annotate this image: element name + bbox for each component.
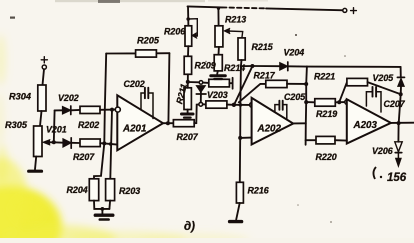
node dot D (V204 row) bbox=[250, 64, 254, 68]
wire feedback vertical left (R205 loop) bbox=[104, 54, 106, 144]
wire R215 down main vertical bbox=[240, 60, 242, 182]
op-amp A201 bbox=[117, 95, 163, 150]
wire stub to dot D bbox=[241, 65, 253, 67]
speckles bbox=[295, 34, 297, 36]
wire top to R213 bbox=[217, 8, 219, 26]
svg-text:д): д) bbox=[184, 221, 195, 233]
svg-text:R205: R205 bbox=[137, 36, 160, 46]
wire D to V204 bbox=[252, 65, 279, 67]
diode V205 bbox=[397, 77, 404, 86]
node dot R207/feedback bbox=[102, 141, 106, 145]
wire to ground bbox=[101, 209, 103, 214]
terminal + (left input) bbox=[41, 57, 47, 69]
wire V205 to node bbox=[400, 86, 402, 94]
svg-text:R202: R202 bbox=[78, 120, 99, 130]
node junction V201/V202 bbox=[52, 140, 56, 144]
resistor R216 bbox=[236, 182, 243, 203]
resistor R217 bbox=[266, 80, 287, 87]
wire R206 to R209 bbox=[187, 46, 189, 56]
wire A201 output bbox=[163, 122, 173, 124]
wire R219 to node bbox=[335, 101, 345, 103]
diode V206 bbox=[395, 142, 402, 153]
wire R304 to R305 bbox=[40, 111, 42, 126]
op-amp A203 bbox=[347, 99, 391, 143]
wire R220 row bbox=[306, 139, 316, 141]
diode V202 bbox=[63, 106, 71, 115]
resistor R209 bbox=[184, 56, 191, 74]
wire R217 to V2 line bbox=[287, 83, 306, 85]
wire A202 output bbox=[293, 122, 306, 124]
wire node B to R212 bbox=[203, 103, 206, 105]
wire corner down to V205 bbox=[400, 67, 402, 78]
resistor R214 bbox=[214, 55, 222, 71]
node dot ground join bbox=[101, 207, 105, 211]
junction circle node B bbox=[199, 102, 203, 106]
potentiometer R305 bbox=[34, 126, 42, 157]
wire V203 cathode to node B bbox=[200, 94, 202, 102]
svg-text:R206: R206 bbox=[164, 27, 185, 37]
node dot V1 row crossing bbox=[239, 103, 243, 107]
node dot R211 top bbox=[186, 80, 190, 84]
svg-text:V202: V202 bbox=[58, 93, 79, 103]
wire V201 to R207 bbox=[71, 142, 80, 144]
junction circle V203 anode bbox=[199, 81, 203, 85]
wire node down to output bbox=[399, 94, 401, 123]
wire node to V203 row bbox=[188, 81, 199, 83]
wire junction up to V202 row bbox=[53, 110, 56, 142]
diode V203 bbox=[196, 86, 206, 94]
svg-text:R207: R207 bbox=[73, 152, 95, 162]
svg-text:156: 156 bbox=[387, 172, 407, 184]
resistor R211 bbox=[184, 88, 191, 110]
node dot V205/R221 bbox=[399, 92, 403, 96]
svg-text:R209: R209 bbox=[195, 61, 216, 71]
wire node to A201 lower input bbox=[104, 143, 117, 144]
ground (below R214) bbox=[211, 76, 226, 79]
wire output down to V206 bbox=[397, 123, 399, 142]
scan smudge top edge bbox=[10, 0, 268, 19]
capacitor C205 bbox=[275, 101, 287, 120]
ground (below R216) bbox=[230, 220, 242, 223]
diode V201 bbox=[63, 138, 71, 148]
node dot R219/R221 bbox=[337, 100, 341, 104]
input circle A202 bbox=[250, 103, 255, 108]
svg-text:R220: R220 bbox=[316, 152, 337, 162]
capacitor C207 bbox=[366, 87, 381, 112]
svg-text:R217: R217 bbox=[254, 71, 276, 81]
resistor R221 bbox=[347, 78, 368, 85]
wire R213 to R214 bbox=[218, 47, 220, 55]
resistor R202 bbox=[80, 106, 100, 113]
svg-text:R204: R204 bbox=[67, 185, 88, 195]
svg-text:R203: R203 bbox=[119, 186, 140, 196]
wire V204 to corner bbox=[288, 65, 307, 67]
resistor R210 (with end bar) bbox=[209, 78, 233, 89]
resistor R207 (left) bbox=[80, 139, 100, 147]
wiper arrow into R305 bbox=[43, 140, 54, 145]
ground (below R305) bbox=[29, 170, 42, 173]
resistor R207 (output) bbox=[173, 120, 194, 127]
top supply wire bbox=[188, 6, 223, 7]
terminal circle + (top right) bbox=[343, 8, 347, 12]
ground (below R211) bbox=[182, 114, 194, 118]
svg-text:V203: V203 bbox=[207, 90, 228, 100]
wire circle to R210 bbox=[203, 82, 209, 84]
svg-text:R219: R219 bbox=[316, 109, 337, 119]
node dot A202 lower input bbox=[238, 136, 242, 140]
node dot output V206 bbox=[397, 121, 401, 125]
ground (below R203/R204) bbox=[95, 215, 113, 219]
wire A202 lower input bbox=[240, 137, 251, 139]
wire A203 output bbox=[391, 122, 414, 124]
wire node to R211 bbox=[187, 82, 189, 88]
vertical line V2 bbox=[306, 67, 307, 145]
wire R209 to node bbox=[187, 74, 189, 82]
wire feedback top to R205 bbox=[106, 52, 135, 54]
wire L1 down to R204 bbox=[94, 143, 104, 178]
wire L2 down to R203 bbox=[110, 110, 112, 179]
wire N2 to A202 input bbox=[234, 104, 250, 106]
resistor R215 bbox=[238, 38, 245, 60]
resistor R204 bbox=[89, 179, 98, 201]
wire R203 bottom to join bbox=[108, 201, 111, 209]
resistor R219 bbox=[315, 99, 336, 107]
wire feedback vertical right bbox=[168, 53, 169, 123]
wire R211 to ground bbox=[187, 110, 189, 113]
resistor R205 bbox=[136, 50, 157, 57]
wire R214 to ground bbox=[216, 71, 219, 74]
svg-text:C205: C205 bbox=[284, 92, 306, 102]
resistor R304 bbox=[38, 85, 46, 111]
node dot R206 wiper tap bbox=[186, 17, 190, 21]
capacitor C202 bbox=[141, 88, 153, 119]
node dot top wire R213 bbox=[217, 7, 220, 10]
svg-text:V204: V204 bbox=[284, 48, 305, 58]
node dot N2 bbox=[232, 103, 236, 107]
wire diagonal N2 to D bbox=[234, 66, 252, 104]
node dot R217/V2 bbox=[304, 82, 308, 86]
svg-text:V205: V205 bbox=[373, 73, 395, 83]
svg-text:R216: R216 bbox=[248, 186, 269, 196]
resistor R203 bbox=[106, 179, 115, 201]
wire V202 to R202 bbox=[71, 109, 80, 111]
svg-text:R304: R304 bbox=[9, 92, 31, 102]
off-page arrow output bbox=[396, 153, 402, 167]
wire R202 to A201 input bbox=[100, 109, 115, 111]
handwritten page mark ( . bbox=[373, 167, 376, 179]
wire R305 to ground bbox=[35, 157, 36, 170]
wire terminal to R304 bbox=[43, 69, 45, 85]
wire R207 to node bbox=[100, 142, 104, 144]
wire R212 to node N2 bbox=[227, 104, 234, 106]
svg-text:V206: V206 bbox=[372, 146, 393, 156]
node dot on R202 row bbox=[110, 108, 114, 112]
yellow speckle left edge bbox=[0, 34, 45, 225]
wire R205 to output drop bbox=[156, 52, 169, 54]
svg-text:C207: C207 bbox=[384, 99, 406, 109]
input circle A203 bbox=[345, 100, 350, 105]
resistor R212 (unlabeled) bbox=[206, 101, 227, 108]
svg-text:V201: V201 bbox=[46, 125, 67, 135]
wire to V202 bbox=[55, 109, 63, 111]
+ sign top right bbox=[351, 8, 357, 14]
svg-text:R213: R213 bbox=[225, 15, 246, 25]
diode V204 bbox=[280, 62, 288, 71]
wire diagonal to R217 bbox=[239, 84, 266, 102]
svg-text:R207: R207 bbox=[177, 132, 199, 142]
op-amp A202 bbox=[252, 98, 294, 145]
rheostat R206 bbox=[185, 26, 192, 46]
input circle A201 bbox=[115, 107, 120, 112]
wire R204 bottom to join bbox=[94, 201, 109, 209]
wire R207 up to summing row bbox=[194, 104, 199, 123]
yellow stain bottom-left corner bbox=[0, 158, 250, 243]
potentiometer R213 bbox=[215, 26, 223, 47]
wiper R206 bbox=[188, 19, 197, 39]
node dot lower input bbox=[109, 142, 113, 146]
svg-text:R305: R305 bbox=[5, 120, 28, 130]
svg-text:C202: C202 bbox=[124, 79, 145, 89]
svg-text:A201: A201 bbox=[122, 124, 146, 135]
resistor R220 bbox=[316, 136, 335, 144]
svg-text:R221: R221 bbox=[314, 72, 335, 82]
node dot V2/R219 bbox=[304, 100, 308, 104]
wire R220 to A203 lower input bbox=[335, 139, 347, 141]
wire R216 to ground bbox=[236, 203, 240, 220]
wire top to R206 bbox=[187, 6, 189, 25]
svg-text:R215: R215 bbox=[252, 42, 274, 52]
wire R221 diagonal to V205 node bbox=[368, 82, 401, 94]
svg-text:A203: A203 bbox=[353, 120, 378, 131]
top wire 2 (A203 feedback) bbox=[307, 66, 401, 68]
node dot output/feedback bbox=[166, 121, 170, 125]
wiper R213 to R215 bbox=[224, 28, 243, 38]
wire V2 to R219 bbox=[306, 101, 315, 103]
svg-text:R214: R214 bbox=[224, 63, 245, 73]
wire junction to V201 bbox=[54, 141, 63, 143]
wire diagonal node to R221 bbox=[339, 82, 347, 102]
svg-text:A202: A202 bbox=[257, 124, 282, 135]
